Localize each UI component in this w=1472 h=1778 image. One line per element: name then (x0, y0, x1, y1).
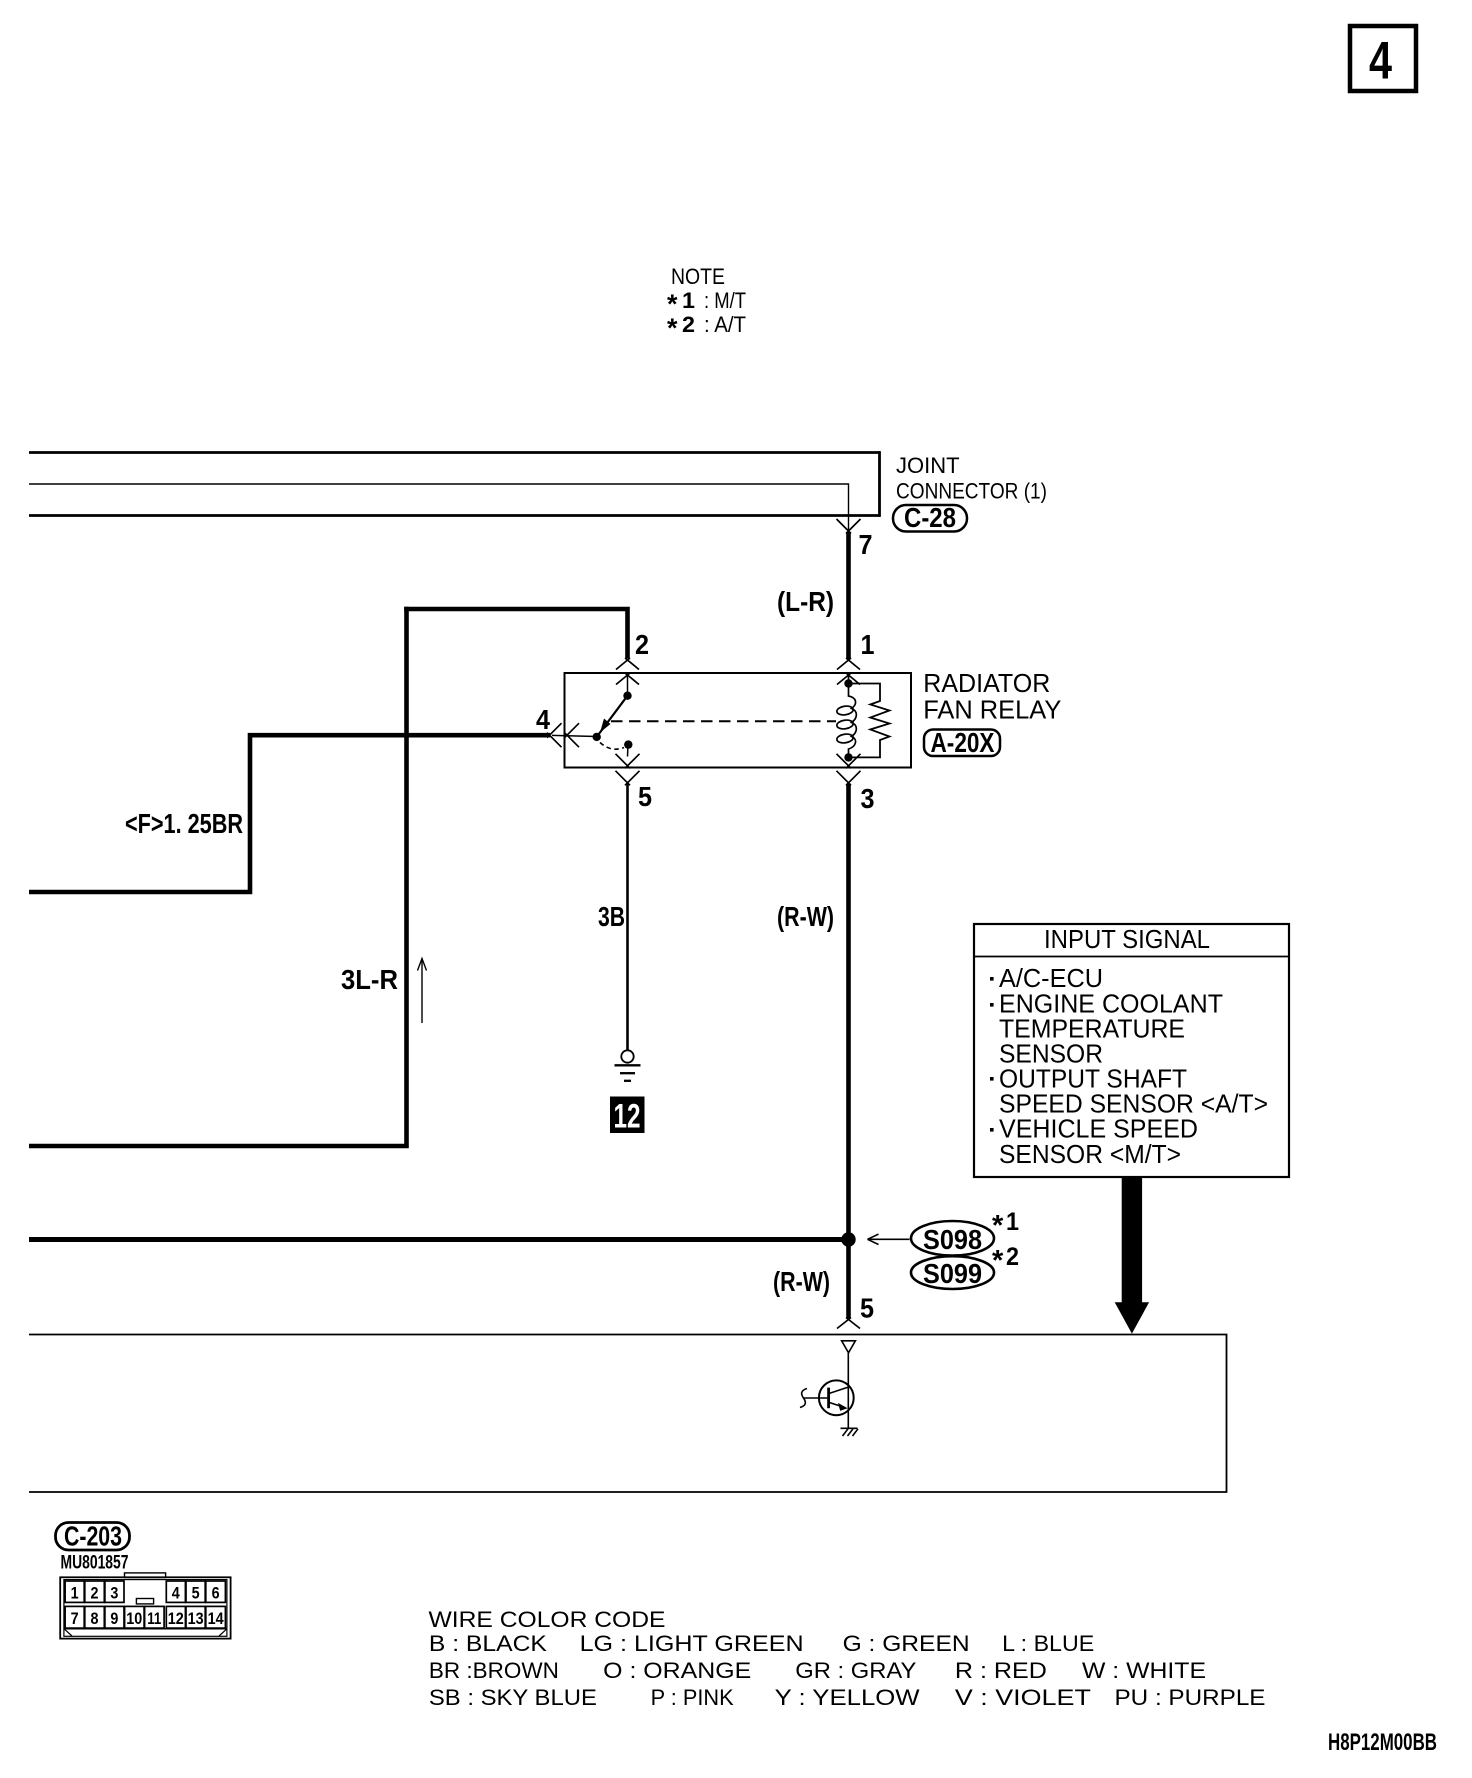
svg-text:12: 12 (614, 1098, 641, 1136)
input list OUTPUT SHAFT SPEED SENSOR A/T (990, 1064, 1268, 1119)
wire color code line 3 (429, 1685, 1266, 1710)
svg-text:Y : YELLOW: Y : YELLOW (775, 1685, 920, 1710)
relay pin 5 inner chevron (616, 754, 640, 769)
svg-text:LG : LIGHT GREEN: LG : LIGHT GREEN (580, 1631, 804, 1656)
svg-text:1: 1 (1006, 1208, 1019, 1236)
svg-text:NOTE: NOTE (671, 264, 725, 289)
wire color code line 1 (429, 1631, 1094, 1656)
svg-text:13: 13 (188, 1609, 204, 1628)
base lead squiggle (800, 1389, 807, 1408)
svg-text:14: 14 (208, 1609, 224, 1628)
relay pin 1 outer chevron (837, 658, 860, 670)
joint connector box bottom edge (29, 514, 880, 517)
svg-text:WIRE COLOR CODE: WIRE COLOR CODE (429, 1607, 666, 1632)
svg-text:5: 5 (638, 781, 652, 812)
svg-text:: A/T: : A/T (704, 312, 746, 337)
collector lead from pin (847, 1353, 849, 1428)
wire R-W relay pin 3 down (846, 784, 851, 1319)
relay switch arm (597, 696, 628, 737)
relay pin 3 outer chevron (837, 771, 861, 786)
note *2 A/T (667, 312, 746, 343)
svg-text:C-28: C-28 (904, 502, 956, 533)
relay control dashed link (611, 720, 836, 722)
svg-text:(L-R): (L-R) (777, 586, 834, 617)
relay pin 3 inner chevron (837, 754, 861, 769)
svg-text:(R-W): (R-W) (777, 901, 834, 932)
wire from top bus to relay pin 2 (404, 607, 630, 659)
ecu pin triangle (842, 1341, 856, 1353)
note ref *2 (992, 1243, 1019, 1277)
svg-text:3B: 3B (598, 901, 625, 932)
relay lower contact lead (627, 745, 630, 757)
page number box (1350, 26, 1416, 91)
svg-text:MU801857: MU801857 (61, 1553, 129, 1574)
svg-text:G : GREEN: G : GREEN (843, 1631, 970, 1656)
svg-text:4: 4 (1369, 32, 1392, 91)
svg-text:S098: S098 (923, 1224, 982, 1255)
svg-text:O : ORANGE: O : ORANGE (603, 1658, 751, 1683)
svg-text:3: 3 (861, 783, 875, 814)
svg-text:2: 2 (1006, 1243, 1019, 1271)
ecu box (29, 1335, 1227, 1493)
svg-text:RADIATOR: RADIATOR (923, 668, 1050, 698)
note *1 M/T (667, 288, 746, 319)
relay coil wavy lead (849, 672, 857, 757)
svg-text:5: 5 (192, 1584, 200, 1603)
connector C-203 pinout drawing (60, 1573, 230, 1639)
svg-text:*: * (667, 313, 678, 343)
input list ENGINE COOLANT TEMPERATURE SENSOR (990, 989, 1223, 1069)
svg-text:2: 2 (635, 629, 649, 660)
svg-text:7: 7 (859, 529, 873, 560)
wire inside joint connector (29, 484, 849, 531)
svg-text:(R-W): (R-W) (773, 1266, 830, 1297)
svg-text:6: 6 (212, 1584, 220, 1603)
input list VEHICLE SPEED SENSOR M/T (990, 1114, 1198, 1170)
svg-text:SENSOR <M/T>: SENSOR <M/T> (999, 1139, 1181, 1169)
radiator fan relay box (565, 673, 912, 768)
relay pin 1 inner chevron (837, 673, 860, 685)
svg-text:W : WHITE: W : WHITE (1082, 1658, 1206, 1683)
splice S099 (911, 1256, 994, 1289)
svg-text:P : PINK: P : PINK (651, 1685, 734, 1710)
svg-text:7: 7 (71, 1609, 79, 1628)
relay switch common contact (593, 733, 601, 741)
wire F 1.25BR down-left (29, 738, 250, 893)
svg-text:SB : SKY BLUE: SB : SKY BLUE (429, 1685, 597, 1710)
svg-text:5: 5 (860, 1293, 874, 1324)
svg-text:A-20X: A-20X (931, 727, 995, 758)
relay switch top contact (623, 692, 631, 700)
label JOINT CONNECTOR (1) (896, 453, 1047, 504)
connector designator C-28 (893, 502, 967, 533)
ground id 12 (610, 1097, 645, 1136)
relay designator A-20X (924, 727, 1000, 758)
svg-text:10: 10 (126, 1609, 142, 1628)
svg-text:FAN RELAY: FAN RELAY (923, 695, 1061, 725)
svg-text:1: 1 (861, 629, 875, 660)
ecu pin 5 chevron (837, 1318, 860, 1329)
input list A/C-ECU (990, 963, 1103, 993)
relay switch lower contact (624, 740, 632, 748)
relay pin 2 outer chevron (616, 658, 639, 670)
svg-text:H8P12M00BB: H8P12M00BB (1328, 1729, 1437, 1756)
input signal box (974, 924, 1289, 1177)
wire to relay pin 4 (248, 733, 550, 738)
svg-text:<F>1. 25BR: <F>1. 25BR (125, 808, 243, 839)
connector pin cells row 2 (65, 1606, 225, 1628)
svg-text:11: 11 (147, 1609, 161, 1628)
chassis ground under transistor (841, 1428, 859, 1436)
svg-text:2: 2 (682, 312, 695, 337)
relay pin 4 outer chevron (547, 723, 562, 747)
relay coil bottom node (844, 753, 852, 761)
connector pin cells row 1 (65, 1581, 225, 1603)
relay label RADIATOR FAN RELAY (923, 668, 1061, 725)
svg-text:V : VIOLET: V : VIOLET (955, 1685, 1091, 1710)
svg-text:L : BLUE: L : BLUE (1002, 1631, 1094, 1656)
relay switch dashed throw arc (600, 743, 624, 750)
svg-text:8: 8 (91, 1609, 99, 1628)
svg-text:2: 2 (91, 1584, 99, 1603)
svg-text:BR :BROWN: BR :BROWN (429, 1658, 559, 1683)
junction node (841, 1232, 855, 1246)
joint connector box right edge (878, 451, 881, 517)
svg-text:PU : PURPLE: PU : PURPLE (1115, 1685, 1266, 1710)
wire 3B relay pin 5 to ground (626, 784, 629, 1051)
svg-text:GR : GRAY: GR : GRAY (795, 1658, 916, 1683)
relay pin 2 inner chevron (616, 673, 639, 685)
svg-text:INPUT SIGNAL: INPUT SIGNAL (1044, 924, 1210, 954)
joint connector box top edge (29, 451, 880, 454)
svg-text:4: 4 (172, 1584, 180, 1603)
svg-text:R : RED: R : RED (955, 1658, 1047, 1683)
relay coil top node (844, 679, 852, 687)
svg-text:1: 1 (682, 288, 695, 313)
svg-text:S099: S099 (923, 1258, 982, 1289)
transistor base lead (804, 1397, 829, 1399)
relay switch lead from pin 2 (627, 672, 629, 696)
svg-text:JOINT: JOINT (896, 453, 960, 478)
svg-text:3L-R: 3L-R (341, 964, 398, 995)
main feed wire to junction (29, 1237, 846, 1242)
relay pin 5 outer chevron (616, 771, 640, 786)
svg-text:1: 1 (71, 1584, 79, 1603)
relay pin 4 inner chevron (565, 723, 580, 747)
pin 7 connector chevron (837, 519, 861, 534)
svg-text:*: * (992, 1210, 1004, 1242)
connector designator C-203 (56, 1521, 130, 1552)
svg-text:9: 9 (110, 1609, 118, 1628)
svg-text:12: 12 (168, 1609, 184, 1628)
svg-text:: M/T: : M/T (704, 288, 746, 313)
input signal arrow to ECU (1115, 1177, 1149, 1334)
wire L-R from joint connector to relay pin 1 (846, 532, 851, 659)
note ref *1 (992, 1208, 1019, 1242)
svg-text:4: 4 (536, 704, 550, 735)
wire color code line 2 (429, 1658, 1206, 1683)
svg-text:B : BLACK: B : BLACK (429, 1631, 547, 1656)
transistor Q1 (819, 1380, 854, 1415)
direction arrow up (418, 959, 427, 1024)
svg-text:C-203: C-203 (64, 1521, 122, 1552)
ground symbol (615, 1050, 641, 1081)
splice S098 (911, 1221, 994, 1256)
svg-text:*: * (992, 1245, 1004, 1277)
relay resistor (849, 684, 890, 758)
splice pointer arrow (868, 1234, 910, 1244)
relay pin 4 lead to switch (552, 735, 597, 736)
left vertical wire (29, 607, 407, 1146)
svg-text:CONNECTOR (1): CONNECTOR (1) (896, 479, 1047, 504)
relay coil windings (836, 705, 853, 744)
svg-text:3: 3 (110, 1584, 118, 1603)
